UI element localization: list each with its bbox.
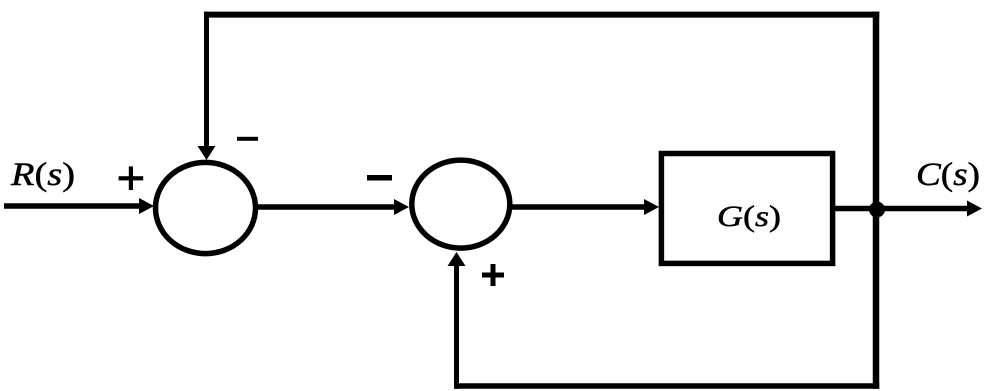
summing junction S2 [412,160,510,248]
sign + at summing junction S1 input [119,166,144,190]
wire S2 to block G(s) [512,199,659,215]
block G(s) [661,154,832,264]
summing junction S1 [156,162,256,253]
outer feedback wire: takeoff node up, across top, down into S1 [198,12,880,209]
sign − at S1 feedback input [237,137,258,141]
svg-text:G(s): G(s) [717,200,781,233]
sign + at S2 feedback input [482,264,504,286]
inner feedback wire: takeoff node down, across bottom, up into S2 [448,209,880,389]
wire S1 to summing junction S2 [257,199,409,215]
svg-text:R(s): R(s) [10,157,75,193]
wire block G(s) to output C(s) [835,201,982,217]
svg-text:C(s): C(s) [916,157,980,193]
wire input R(s) to summing junction S1 [4,198,154,214]
takeoff node (junction dot) [869,202,885,218]
sign − at S2 input [367,175,392,181]
